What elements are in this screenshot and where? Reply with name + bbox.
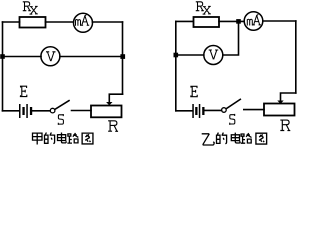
wire: resistor to node [219,20,244,22]
wire: switch to rheostat [72,110,92,112]
label S [230,114,235,124]
wire: battery to switch [205,109,222,111]
voltmeter V [41,47,60,66]
wire: top-left from rail to resistor [3,21,20,23]
glyph lu [241,133,252,143]
wire: bottom-left rail to battery [176,110,193,112]
wire: voltmeter drop from node [223,21,239,55]
rheostat R (box) [264,104,295,116]
wire: right rail down [295,21,297,93]
node: junction top / voltmeter [236,19,241,24]
wire: voltmeter branch left [3,56,42,58]
battery E [19,104,32,118]
glyph tu [82,133,93,144]
voltmeter V [204,46,223,65]
resistor RX (box) [20,17,46,28]
wire: jog from rail to slider arrow [281,93,296,101]
node: junction right rail / voltmeter [120,54,125,59]
node: junction left rail / voltmeter [0,54,5,59]
switch S [222,108,227,113]
resistor RX (box) [194,17,220,27]
glyph yi [202,134,215,145]
label RX [23,2,30,11]
glyph tu [256,133,267,144]
label R [109,121,118,132]
label E [191,86,197,96]
caption: jia de dianlutu (left) [33,133,93,145]
glyph dian [231,133,240,143]
wire: voltmeter to left rail [176,54,204,56]
wire: voltmeter branch right [60,56,123,58]
rheostat R (box) [91,106,122,118]
glyph de [45,133,55,144]
slider arrow of rheostat [277,101,283,104]
wire: resistor to milliammeter [46,21,74,23]
wire: battery to switch [32,110,50,112]
glyph dian [58,133,67,143]
wire: switch to rheostat [244,109,264,111]
label S [58,115,63,125]
node: junction left rail / voltmeter [174,53,179,58]
ammeter mA (U1) [74,13,93,32]
wire: right rail down [122,22,124,94]
label R [281,120,290,131]
glyph jia [33,133,43,144]
wire: left rail [175,21,177,110]
glyph lu [67,133,78,143]
wire: left rail [2,22,4,111]
label RX [196,2,203,11]
glyph de [217,133,227,144]
wire: bottom-left rail to battery [3,110,20,112]
caption: yi de dianlutu (right) [202,133,267,145]
wire: jog from rail to slider arrow [109,94,122,102]
battery E [192,104,204,118]
switch S [50,108,55,113]
slider arrow of rheostat [106,102,112,105]
wire: top-left from rail to resistor [176,20,193,22]
label E [20,86,26,96]
wire: milliammeter to right rail [92,21,122,23]
ammeter mA (U2) [244,12,263,31]
wire: milliammeter to right rail [263,20,296,22]
